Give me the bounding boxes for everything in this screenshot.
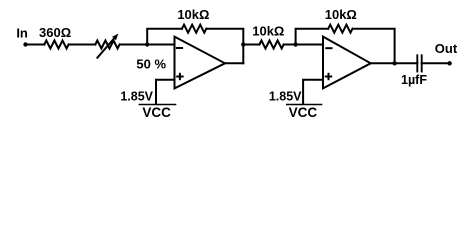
op-amp U1 bbox=[175, 37, 226, 89]
resistor R1 360ohm bbox=[44, 41, 68, 49]
node In bbox=[23, 42, 27, 46]
potentiometer arrow bbox=[97, 34, 118, 58]
wire node C to U2 inverting input bbox=[296, 44, 323, 46]
potentiometer body bbox=[95, 41, 119, 49]
U2 minus sign bbox=[326, 47, 331, 49]
resistor R3 10k inter-stage bbox=[259, 41, 283, 49]
node B junction bbox=[241, 42, 245, 46]
svg-text:Out: Out bbox=[435, 41, 458, 56]
node D output junction bbox=[392, 61, 396, 65]
wire R1 to potentiometer bbox=[69, 44, 96, 46]
VCC bar 2 bbox=[287, 104, 322, 106]
wire R3 to node C bbox=[284, 44, 296, 46]
svg-text:1.85V: 1.85V bbox=[269, 90, 302, 104]
U2 plus sign bbox=[326, 74, 331, 79]
svg-text:1.85V: 1.85V bbox=[120, 90, 153, 104]
node Out bbox=[447, 61, 451, 65]
node A junction bbox=[145, 42, 149, 46]
svg-text:VCC: VCC bbox=[289, 105, 318, 120]
wire node B to R3 bbox=[243, 44, 259, 46]
resistor R2 10k feedback U1 bbox=[182, 25, 206, 33]
capacitor C1 bbox=[417, 55, 421, 71]
U1 plus sign bbox=[177, 74, 182, 79]
wire pot to node A bbox=[120, 44, 148, 46]
feedback wire U2 right bbox=[353, 29, 395, 64]
feedback wire U1 left bbox=[147, 29, 182, 45]
U1 non-inverting input wire bbox=[156, 80, 175, 104]
wire node A to U1 inverting input bbox=[147, 44, 174, 46]
svg-text:In: In bbox=[16, 25, 28, 40]
resistor R4 10k feedback U2 bbox=[328, 25, 352, 33]
feedback wire U1 right bbox=[206, 29, 243, 64]
U1 output wire bbox=[225, 62, 243, 64]
wire C1 to Out bbox=[422, 62, 450, 64]
node C junction bbox=[293, 42, 297, 46]
VCC bar 1 bbox=[139, 104, 175, 106]
svg-text:1µfF: 1µfF bbox=[401, 73, 427, 87]
svg-text:VCC: VCC bbox=[142, 105, 171, 120]
U2 non-inverting input wire bbox=[303, 80, 323, 104]
U1 minus sign bbox=[177, 47, 182, 49]
U2 output wire bbox=[371, 62, 418, 64]
svg-text:50 %: 50 % bbox=[136, 56, 166, 71]
svg-text:10kΩ: 10kΩ bbox=[325, 7, 357, 22]
svg-text:10kΩ: 10kΩ bbox=[252, 23, 284, 38]
feedback wire U2 left bbox=[296, 29, 329, 45]
svg-text:360Ω: 360Ω bbox=[39, 25, 71, 40]
svg-text:10kΩ: 10kΩ bbox=[177, 7, 209, 22]
wire In to R1 bbox=[27, 44, 45, 46]
op-amp U2 bbox=[323, 37, 371, 89]
